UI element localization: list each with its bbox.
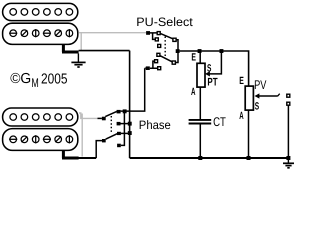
junction CT-bus [198,156,202,160]
ground symbol at PU1 braid [71,54,85,68]
junction on line B row 2 [128,122,132,126]
wire: pole 1 to output junction [176,40,178,50]
svg-text:E: E [191,51,196,63]
switch S2 Phase: throw contact row 2 [117,122,121,126]
pickup PU2 coil 1 pole pieces [10,114,73,121]
wire: PU1 braid to line B (ground feed of phase switch) [79,50,130,52]
switch S1: dotted tie bar [164,37,166,59]
wire: PT bottom to capacitor CT [199,87,201,119]
wire: PV bottom to ground bus [248,110,250,158]
wire: PU1 braid (thick) [62,44,79,52]
switch S1: lever 1 [161,34,173,39]
wire: PT wiper from bus [209,53,222,74]
switch S1: throw contact 2a (empty) [157,53,160,56]
switch S2 Phase: pole 2 contact [102,139,106,142]
switch S2 Phase: lever 1 [105,111,117,116]
pickup PU2 coil 2 screw poles [9,135,73,143]
wire: neck pickup hot (gray) to PU-Select [79,32,146,34]
wire: riser to Phase pole 2 [96,141,102,158]
junction PV-bus [247,156,251,160]
switch S1: pole 2 contact [172,61,175,64]
wire: bridge pickup hot (gray) to Phase pole 1 [79,113,98,118]
switch S1: throw contact 1a [157,32,160,35]
svg-text:M: M [31,76,38,90]
wire: row 2 to line B [121,123,131,125]
junction jack-bus [286,156,290,160]
output jack tip terminal [287,94,290,97]
wire: feed bracket to throws 1a/1b [150,33,157,40]
potentiometer PT (tone) body [197,63,205,87]
switch S1: throw contact 1b [155,38,158,41]
wire: pole 2 to output junction [175,53,178,63]
pickup PU2 bridge: coil 2 body [3,129,78,151]
wire: pole 1 stub [98,117,102,119]
junction on line B row 3 [128,131,132,135]
switch S2 Phase: throw contact row 4 [117,144,121,148]
pickup PU1 coil 1 pole pieces [10,9,73,16]
wire: line A (cross link) [121,111,125,145]
svg-text:PU-Select: PU-Select [136,15,193,29]
switch S1: feed terminal from phase switch [146,66,150,70]
potentiometer PV (volume) body [245,86,253,110]
wire: ground bus right segment [130,157,289,159]
plug tick at wiper wire end [278,94,280,96]
switch S1: throw contact 2b [155,60,158,63]
junction at PT top [198,49,202,53]
switch S1 PU-Select: feed terminal from neck pickup [146,31,150,35]
ground symbol bottom right [283,158,294,168]
switch S2 Phase: pole 1 contact [102,117,106,121]
svg-text:©G: ©G [10,71,31,87]
wire: signal bus to volume pot [180,51,249,86]
wire: row 3 to line B [121,132,131,134]
junction: selector output [176,49,180,53]
wire: feed bracket to throws 2b/2c [150,61,158,68]
svg-text:S: S [207,62,211,74]
wire: bus to PT top [199,53,201,64]
wire: jack sleeve to ground bus [287,106,289,158]
wire: neck pickup gray drop to braid [80,33,82,51]
switch S2 Phase: lever 2 [106,134,118,140]
svg-text:Phase: Phase [139,118,171,132]
svg-text:CT: CT [213,115,226,129]
output jack sleeve terminal [287,102,290,105]
junction on line A row 1 [123,109,127,113]
svg-text:PT: PT [207,76,217,88]
switch S2 Phase: throw contact row 1 [117,110,121,114]
capacitor CT plates [189,120,212,124]
wire: PU2 braid (thick) [62,150,79,158]
wire: PV wiper to output jack [259,95,278,97]
svg-text:PV: PV [254,78,267,92]
svg-text:2005: 2005 [41,71,68,87]
wire: bridge pickup gray drop to braid/ground bus [81,114,83,157]
wire: bridge feed riser to switch [145,67,146,69]
PV wiper arrowhead [255,93,260,98]
svg-text:E: E [239,75,244,87]
wire: ground bus left segment [78,157,96,159]
wire: row 1 to riser up to PU-Select [121,68,145,111]
svg-text:S: S [255,100,259,112]
wire: CT bottom to ground bus [199,124,201,158]
junction at PT wiper tap [220,49,224,53]
switch S1: throw contact 2c [158,67,161,70]
pickup PU1 neck: coil 1 body [3,3,78,20]
wire: line B vertical (ground bus riser) [129,51,131,158]
switch S1: throw contact 1c (empty) [158,44,161,47]
pickup PU1 coil 2 screw poles [9,29,73,37]
pickup PU1 neck: coil 2 body [3,23,78,44]
svg-text:A: A [239,110,244,122]
svg-text:A: A [191,86,196,98]
pickup PU2 bridge: coil 1 body [3,108,78,126]
switch S2 Phase: dotted tie bar [110,116,112,134]
switch S1: lever 2 [160,56,172,62]
switch S1: pole 1 contact [173,38,176,41]
switch S2 Phase: throw contact row 3 [117,132,121,135]
PT wiper arrowhead [205,71,210,76]
